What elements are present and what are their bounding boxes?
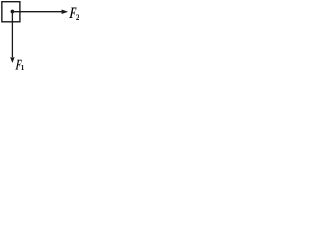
force F2 arrowhead	[62, 9, 69, 14]
node dot (center of body)	[11, 10, 15, 14]
force F1 arrow shaft	[11, 12, 13, 58]
svg-text:2: 2	[76, 13, 79, 22]
force F2 arrow shaft	[12, 11, 62, 13]
force F1 arrowhead	[10, 57, 15, 63]
box (square body)	[2, 2, 20, 22]
svg-text:1: 1	[21, 64, 25, 71]
